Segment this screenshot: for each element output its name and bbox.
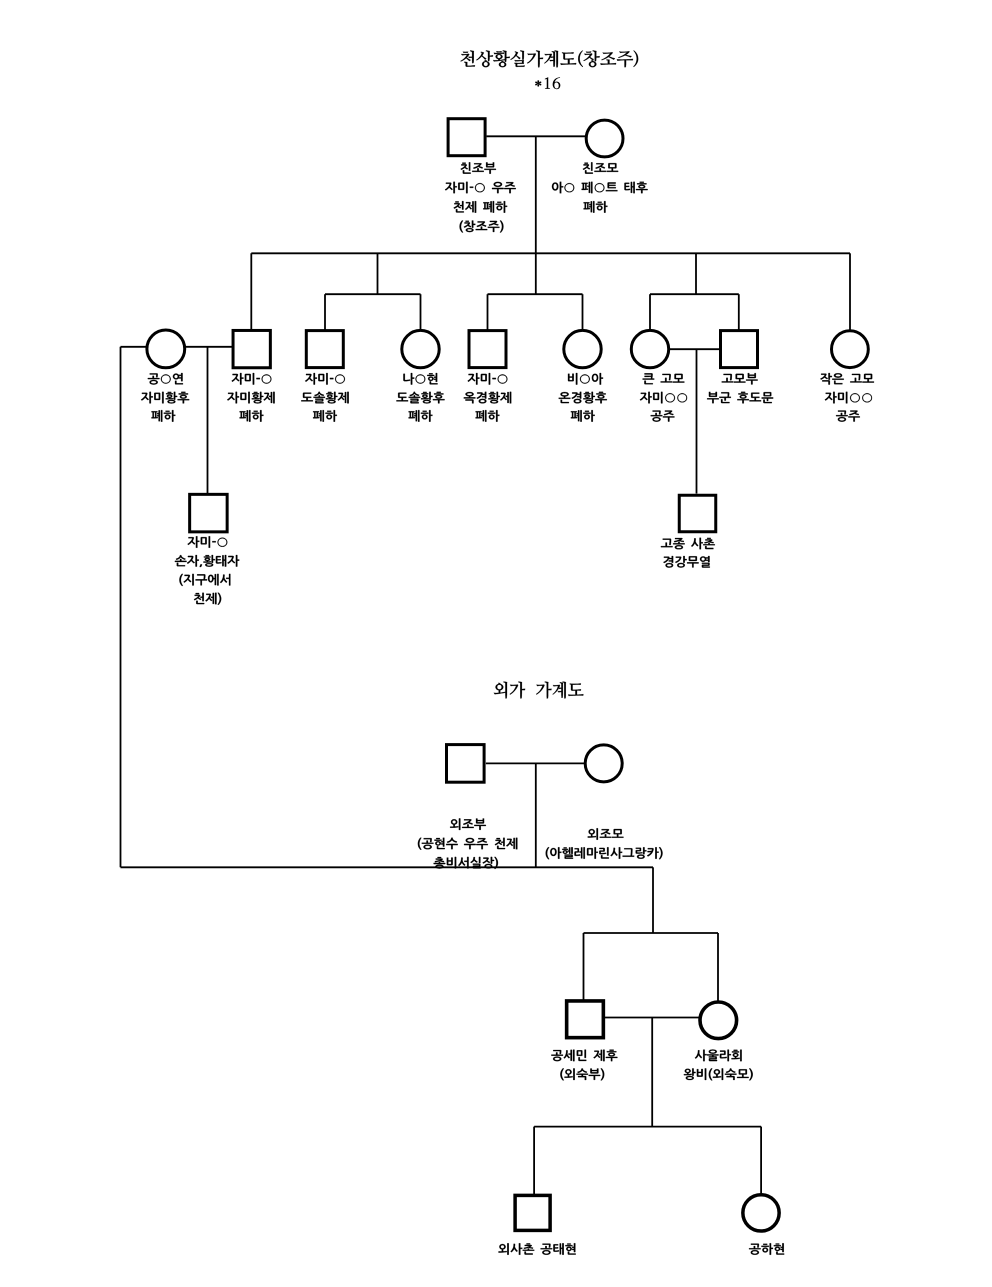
- person square maternal grandfather: [447, 745, 485, 783]
- wire drop to C hahyun: [760, 1127, 762, 1194]
- wire couple5 horizontal: [605, 1017, 699, 1019]
- label elder aunt l1: 큰 고모: [643, 373, 685, 384]
- label Dosol empress l1: 나○현: [403, 373, 437, 385]
- label uncle l1: 공세민 제후: [551, 1050, 617, 1062]
- label Dosol emperor l1: 자미-○: [305, 373, 345, 385]
- wire subbar3: [650, 293, 739, 295]
- wire drop to SQ2: [250, 253, 252, 330]
- wire bar2: [584, 932, 719, 934]
- person circle aunt Saullahoe: [700, 1002, 737, 1039]
- label Gong Taehyun: 외사촌 공태현: [498, 1243, 575, 1255]
- label younger aunt l3: 공주: [836, 411, 860, 422]
- label Jami emperor l3: 폐하: [240, 410, 264, 422]
- label grandfather l2: 자미-○ 우주: [445, 182, 516, 194]
- wire drop to C aunt: [717, 933, 719, 1001]
- wire couple5 child drop: [651, 1018, 653, 1127]
- wire drop to C7: [649, 294, 651, 329]
- person square cousin Gong Taehyun: [515, 1195, 550, 1230]
- wire long left vertical: [120, 347, 122, 868]
- label Okgyeong emperor l1: 자미-○: [468, 373, 508, 385]
- label Gong empress l3: 폐하: [151, 410, 175, 422]
- label grandson l3: (지구에서: [179, 574, 230, 586]
- label sub note *16: [535, 77, 560, 89]
- label Okgyeong emperor l3: 폐하: [476, 410, 500, 422]
- label Ongyeong empress l1: 비○아: [568, 373, 603, 385]
- label cousin l1: 고종 사촌: [661, 538, 715, 550]
- label uncle-in-law l1: 고모부: [722, 373, 758, 384]
- label maternal grandfather l2: (공현수 우주 천제: [418, 838, 518, 850]
- label grandson l1: 자미-○: [188, 536, 228, 548]
- wire drop to SQ uncle: [583, 933, 585, 1000]
- label cousin l2: 경강무열: [663, 556, 709, 568]
- label Okgyeong emperor l2: 옥경황제: [464, 392, 512, 404]
- person square Jami emperor: [233, 330, 270, 367]
- wire child drop to cousin: [696, 349, 698, 493]
- wire drop to C6: [582, 294, 584, 329]
- title maternal: 외가 가계도: [494, 682, 584, 699]
- label Gong empress l2: 자미황후: [141, 392, 189, 404]
- label elder aunt l3: 공주: [651, 411, 675, 422]
- label younger aunt l1: 작은 고모: [820, 373, 874, 385]
- person circle Ongyeong empress: [564, 330, 601, 367]
- label Ongyeong empress l2: 온경황후: [559, 392, 607, 404]
- label Gong empress l1: 공○연: [148, 373, 183, 385]
- wire drop to SQ3: [324, 294, 326, 330]
- label grandmother l3: 폐하: [584, 201, 608, 213]
- person square Dosol emperor: [306, 331, 343, 368]
- person circle Dosol empress: [402, 330, 439, 367]
- label Dosol emperor l2: 도솔황제: [301, 392, 349, 404]
- person square grandfather: [448, 119, 485, 156]
- label aunt l2: 왕비(외숙모): [684, 1068, 753, 1080]
- label aunt l1: 사울라회: [695, 1050, 742, 1062]
- wire drop to C4: [420, 294, 422, 329]
- label maternal grandfather l1: 외조부: [450, 818, 486, 830]
- label grandfather l4: (창조주): [460, 221, 504, 233]
- title main: 천상황실가계도(창조주): [460, 50, 638, 67]
- person circle grandmother: [586, 120, 623, 157]
- wire couple1 horizontal: [487, 135, 586, 137]
- label Gong Hahyun: 공하현: [749, 1243, 784, 1255]
- person square uncle Gong Semin: [567, 1001, 604, 1038]
- person circle elder aunt: [631, 330, 668, 367]
- wire riser pair3: [535, 253, 537, 294]
- wire drop to SQ5: [487, 294, 489, 330]
- person circle Gong empress: [147, 330, 185, 368]
- label Jami emperor l2: 자미황제: [227, 392, 275, 404]
- label Dosol empress l2: 도솔황후: [396, 392, 444, 404]
- wire drop to SQ taehyun: [533, 1127, 535, 1195]
- wire riser pair2: [377, 253, 379, 294]
- wire drop to C9: [849, 253, 851, 329]
- wire couple2 horizontal: [185, 346, 233, 348]
- wire long horizontal: [121, 866, 654, 868]
- wire couple4 horizontal: [486, 762, 585, 764]
- label maternal grandmother l2: (아헬레마린사그랑카): [546, 847, 663, 859]
- wire couple3 horizontal: [670, 348, 721, 350]
- person circle maternal grandmother: [585, 745, 622, 782]
- person square Okgyeong emperor: [469, 331, 506, 368]
- wire bar3: [534, 1126, 761, 1128]
- label Ongyeong empress l3: 폐하: [571, 410, 595, 422]
- person circle younger aunt: [832, 331, 869, 368]
- wire drop to SQ8: [738, 294, 740, 330]
- label grandson l4: 천제): [194, 593, 221, 605]
- wire main sibling bar: [251, 252, 850, 254]
- label maternal grandfather l3: 총비서실장): [434, 857, 498, 869]
- label grandfather l1: 친조부: [461, 162, 496, 174]
- person square cousin Gyeonggang: [679, 495, 716, 532]
- person square grandson crown prince: [190, 494, 228, 531]
- label elder aunt l2: 자미○○: [640, 392, 687, 404]
- wire couple4 descent: [535, 763, 537, 867]
- label uncle l2: (외숙부): [560, 1068, 604, 1080]
- label grandson l2: 손자,황태자: [175, 555, 239, 567]
- label grandmother l2: 아○ 페○트 태후: [552, 182, 648, 194]
- wire subbar2: [488, 293, 583, 295]
- label Dosol empress l3: 폐하: [409, 410, 433, 422]
- person square uncle-in-law Hudomun: [721, 331, 758, 368]
- label grandmother l1: 친조모: [583, 162, 618, 173]
- label Jami emperor l1: 자미-○: [232, 373, 272, 385]
- person circle Gong Hahyun: [743, 1195, 779, 1231]
- label uncle-in-law l2: 부군 후도문: [707, 392, 773, 404]
- wire couple1 descent: [535, 136, 537, 253]
- label younger aunt l2: 자미○○: [825, 392, 872, 404]
- wire left link from C2: [121, 346, 148, 348]
- wire subbar1: [325, 293, 421, 295]
- label Dosol emperor l3: 폐하: [313, 410, 337, 422]
- label grandfather l3: 천제 폐하: [454, 201, 508, 213]
- wire vertical to bar2: [652, 867, 654, 933]
- wire riser pair4: [695, 253, 697, 294]
- label maternal grandmother l1: 외조모: [588, 828, 624, 840]
- wire child drop to grandson: [207, 347, 209, 494]
